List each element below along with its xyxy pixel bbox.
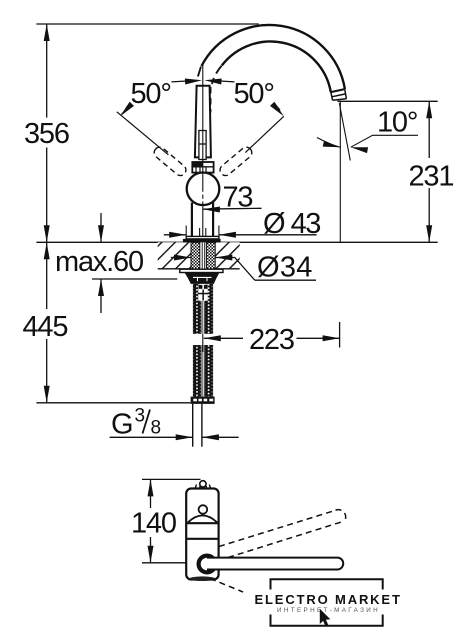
svg-text:Ø34: Ø34 (257, 252, 313, 284)
svg-text:50°: 50° (131, 78, 171, 110)
svg-text:ELECTRO MARKET: ELECTRO MARKET (255, 592, 402, 607)
svg-text:8: 8 (151, 418, 162, 439)
svg-text:G: G (111, 409, 132, 441)
svg-text:356: 356 (24, 118, 69, 150)
svg-text:445: 445 (23, 311, 68, 343)
svg-text:3: 3 (135, 406, 146, 427)
svg-text:223: 223 (249, 324, 294, 356)
svg-text:max.60: max.60 (55, 246, 143, 278)
svg-text:140: 140 (131, 508, 176, 540)
svg-text:ИНТЕРНЕТ-МАГАЗИН: ИНТЕРНЕТ-МАГАЗИН (277, 607, 380, 614)
svg-text:50°: 50° (234, 78, 274, 110)
svg-text:231: 231 (409, 161, 454, 193)
svg-text:10°: 10° (377, 107, 417, 139)
